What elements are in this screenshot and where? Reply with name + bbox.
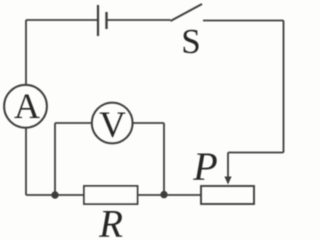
wire left vertical upper (to ammeter): [25, 20, 27, 85]
rheostat slider arrowhead: [224, 177, 231, 185]
wire rheostat slider vertical: [227, 153, 229, 179]
battery cell short plate (-): [105, 12, 107, 29]
wire bottom horizontal: [26, 194, 164, 196]
wire left vertical lower (ammeter to bottom): [25, 128, 27, 195]
wire to rheostat slider horizontal: [228, 152, 284, 154]
wire right vertical: [283, 21, 285, 153]
node left junction dot: [51, 191, 58, 198]
svg-text:V: V: [99, 105, 126, 146]
wire voltmeter branch left horizontal: [55, 122, 92, 124]
ammeter A circle: [4, 85, 47, 128]
battery cell long plate (+): [97, 5, 99, 36]
wire voltmeter branch right horizontal: [133, 122, 164, 124]
voltmeter V circle: [92, 103, 133, 144]
svg-text:P: P: [192, 144, 217, 189]
resistor R box: [84, 186, 138, 204]
switch S blade (open): [171, 4, 203, 21]
wire switch right contact to corner: [203, 20, 284, 22]
svg-text:R: R: [98, 203, 123, 239]
wire voltmeter branch right vertical: [163, 123, 165, 195]
wire bottom to rheostat: [164, 194, 201, 196]
svg-text:S: S: [181, 22, 200, 61]
svg-text:A: A: [14, 86, 40, 126]
wire battery to switch: [107, 19, 171, 21]
rheostat P box: [201, 186, 254, 204]
wire voltmeter branch left vertical: [54, 123, 56, 195]
wire top-left horizontal: [26, 19, 98, 21]
node right junction dot: [160, 191, 167, 198]
